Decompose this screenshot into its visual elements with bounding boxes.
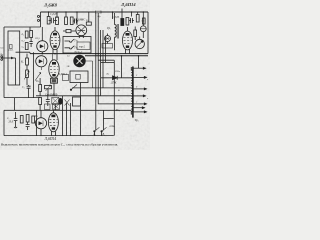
tap arrow 6 — [134, 107, 145, 109]
wire drop x122 — [121, 12, 123, 19]
lamp lead — [107, 34, 109, 44]
lamp filament — [105, 37, 109, 40]
input jack Vx — [3, 57, 16, 59]
tap arrow 4 — [134, 95, 146, 97]
svg-text:Ср=6МКФ: Ср=6МКФ — [45, 93, 58, 96]
wire bottom-left edge — [3, 110, 5, 135]
tube T4 envelope — [49, 60, 59, 78]
tube L1 cathode — [40, 44, 44, 50]
resistor R24 — [134, 30, 137, 37]
svg-text:С0,5: С0,5 — [35, 37, 41, 40]
tube T3 leads — [53, 27, 57, 60]
input jack circles — [1, 56, 3, 58]
tube L3 electrodes — [78, 27, 86, 34]
wire drop x112 — [112, 12, 114, 19]
svg-text:Гн₃: Гн₃ — [115, 109, 120, 112]
svg-text:С₂: С₂ — [22, 46, 25, 49]
tube T7 cathode — [126, 46, 129, 48]
resistor R1 — [25, 31, 28, 38]
svg-text:20,0: 20,0 — [9, 121, 14, 124]
wire drop x138 — [138, 56, 140, 68]
wire v62 — [62, 96, 64, 136]
chassis line upper — [30, 53, 148, 55]
tube L5 cathode — [39, 121, 43, 127]
svg-text:Сл: Сл — [142, 20, 145, 23]
svg-text:адап.: адап. — [8, 49, 14, 52]
resistor R18 — [26, 115, 29, 123]
tube T11 anode — [51, 115, 55, 118]
svg-text:R₂: R₂ — [21, 33, 25, 36]
meter lead — [139, 37, 141, 40]
jack box — [63, 37, 91, 54]
tube T4 socket — [51, 78, 58, 83]
wire top bus left — [41, 11, 96, 13]
tube L3 pins — [79, 35, 83, 38]
wire bundle v3 — [100, 30, 102, 96]
tube T6 slits — [77, 58, 83, 64]
tap arrow 3 — [134, 88, 147, 90]
wire drop lamp C — [142, 12, 144, 26]
tap arrow 7 — [134, 111, 147, 113]
capacitor C4 — [73, 19, 78, 24]
wire x103 L-bend — [104, 110, 114, 118]
fuse Pr1 — [96, 11, 102, 14]
wire drop x121 — [121, 56, 123, 78]
tube L2 cathode — [39, 59, 43, 65]
svg-text:Гн₁: Гн₁ — [74, 40, 79, 43]
wire inner pickup — [15, 58, 17, 85]
svg-text:С₅: С₅ — [22, 86, 25, 89]
wire y110 horizontal — [4, 109, 81, 111]
svg-text:Л₃6Н8С: Л₃6Н8С — [74, 18, 86, 22]
wire x80 vertical — [80, 83, 82, 136]
tap arrow 2 — [134, 76, 147, 78]
wire anode supply — [101, 77, 132, 79]
switch V2 — [102, 127, 107, 131]
potentiometer R13 — [45, 86, 52, 89]
wire drop R5 — [65, 12, 67, 17]
label plate — [77, 42, 90, 50]
wire nested h2 — [101, 61, 115, 63]
svg-text:3В: 3В — [67, 65, 70, 68]
potentiometer arrow R13 — [46, 85, 51, 91]
tube L5 lead — [40, 110, 42, 135]
wire nested h1 — [98, 59, 114, 61]
switch leads — [94, 110, 103, 135]
capacitor C8 — [46, 96, 50, 106]
trimmer bar — [140, 28, 146, 30]
wire drop C3 — [49, 12, 57, 21]
wire bottom edge — [4, 135, 114, 137]
lamp box — [102, 44, 113, 49]
capacitor C10 — [14, 112, 18, 128]
tube T7 leads — [126, 27, 130, 54]
resistor R3a — [25, 43, 28, 50]
svg-text:Л₅6П14: Л₅6П14 — [44, 137, 57, 141]
tube T7 anode — [126, 33, 130, 36]
tube T4 socket pins — [52, 78, 56, 83]
transformer Tr1 winding — [115, 13, 117, 50]
wire v66 — [66, 103, 68, 136]
resistor R23 — [136, 15, 139, 23]
box S2 switch — [53, 104, 60, 110]
wire left edge vertical — [3, 27, 5, 98]
tap arrow 1 — [134, 67, 146, 69]
wire mid-left horizontal — [4, 97, 40, 99]
resistor R6 — [26, 58, 29, 65]
input connector top — [38, 15, 40, 17]
resistor R4 — [56, 17, 59, 25]
svg-text:Л₄6П14: Л₄6П14 — [120, 2, 136, 7]
svg-text:Тр₂: Тр₂ — [135, 118, 139, 122]
pickup box — [8, 31, 20, 85]
tube T7 grid — [124, 38, 132, 44]
wire R24 leads — [134, 27, 136, 41]
svg-text:Кл: Кл — [106, 73, 110, 76]
wire x30 top drop — [29, 27, 31, 31]
wire drop tube L3 — [76, 12, 78, 25]
node bus junctions — [48, 11, 144, 13]
svg-text:Д7Ж: Д7Ж — [110, 82, 117, 85]
transformer Tr1 core — [117, 24, 118, 39]
wire drop x140 — [137, 12, 139, 15]
tube L2 circle — [36, 56, 47, 67]
switch V3 — [65, 100, 70, 106]
svg-text:В₁: В₁ — [94, 133, 97, 136]
tube L1 leads — [41, 27, 43, 54]
speaker symbol — [76, 74, 80, 79]
svg-text:Гн₂: Гн₂ — [74, 46, 79, 49]
wire v70 — [70, 103, 72, 136]
wire x114 vertical — [113, 60, 115, 135]
svg-text:С₉: С₉ — [7, 117, 10, 120]
wire bottom tap — [81, 109, 132, 111]
box S1 — [45, 104, 51, 110]
chassis line lower — [85, 55, 148, 57]
svg-text:В₂: В₂ — [103, 133, 106, 136]
jack Gn1 — [65, 39, 75, 42]
tube L1 circle — [37, 41, 48, 52]
tube T6 circle dark — [74, 55, 86, 67]
transformer Tr2 core — [132, 67, 134, 118]
tube T3 cathode — [53, 45, 56, 47]
tube T4 grid — [50, 67, 58, 73]
wire bus start drop — [40, 12, 42, 27]
capacitor C14 blob — [121, 19, 124, 26]
wire right edge — [147, 12, 149, 54]
jack Gn2 — [65, 46, 75, 49]
svg-text:Л₆6П14: Л₆6П14 — [57, 73, 67, 76]
resistor R21 — [126, 18, 129, 26]
tube T3 anode — [53, 33, 57, 36]
svg-text:Гн₄: Гн₄ — [35, 80, 40, 83]
wire bundle v1 — [95, 13, 97, 110]
capacitor C5 — [27, 85, 31, 98]
potentiometer arrow R7 — [24, 71, 29, 80]
meter M1 circle — [135, 39, 144, 48]
wire drop R3 — [48, 12, 50, 17]
tube T11 leads — [51, 110, 55, 135]
resistor R14 — [39, 98, 42, 105]
resistor R12 — [39, 85, 42, 92]
tube L3 circle — [76, 25, 87, 36]
speaker box — [70, 71, 88, 83]
resistor R17 — [20, 116, 23, 124]
capacitor C3 — [51, 18, 53, 23]
wire mid row — [36, 95, 132, 97]
svg-text:Л₂6Ж8: Л₂6Ж8 — [43, 3, 58, 8]
tube L5 circle — [35, 118, 46, 129]
wire R9 lead — [63, 30, 76, 32]
trimmer lead — [142, 32, 144, 38]
tube T4 anode — [52, 62, 56, 65]
switch V1 — [94, 127, 99, 131]
tube T3 envelope — [50, 31, 60, 50]
transformer Tr2 winding — [131, 67, 132, 115]
tap arrow 5 — [134, 103, 147, 105]
svg-text:сеть: сеть — [110, 125, 116, 128]
tube L2 lead pot — [35, 54, 52, 81]
box K1 — [73, 97, 81, 106]
capacitor C11 — [26, 122, 30, 130]
resistor R3 — [47, 17, 50, 25]
tube T11 cathode — [52, 127, 55, 129]
meter M1 arrow — [137, 41, 143, 47]
svg-text:0,1: 0,1 — [22, 40, 25, 43]
trimmer C15 circle — [140, 26, 146, 32]
wire x14 vertical — [14, 98, 16, 111]
resistor R22 — [143, 18, 146, 24]
wire bundle v2 — [98, 13, 131, 104]
wire drop x131 — [131, 12, 133, 17]
node chassis dots — [42, 53, 140, 57]
potentiometer R7 — [26, 70, 29, 78]
resistor R5b — [70, 17, 73, 25]
switch X mark — [54, 105, 59, 109]
resistor R2 — [30, 31, 33, 38]
lamp L circle — [105, 36, 111, 42]
resistor R19 — [32, 116, 35, 123]
resistor R8 — [86, 22, 91, 25]
resistor R9 — [66, 30, 71, 33]
capacitor C13 — [129, 18, 134, 23]
svg-text:Сл: Сл — [67, 55, 70, 58]
svg-text:С₉0,05: С₉0,05 — [112, 16, 120, 19]
svg-text:эпр-2: эпр-2 — [79, 46, 86, 49]
tube T11 envelope — [48, 113, 58, 132]
resistor R5 — [65, 17, 68, 25]
capacitor C2 — [29, 38, 32, 48]
svg-text:R₈: R₈ — [85, 19, 88, 22]
svg-text:Тр₁: Тр₁ — [107, 26, 111, 30]
wire top bus right — [101, 11, 148, 13]
svg-text:R₆: R₆ — [20, 61, 24, 64]
wire x33 vertical — [33, 52, 35, 97]
wire bundle v4 — [72, 30, 132, 88]
wire T6 to box — [71, 61, 93, 90]
resistor R15 — [52, 97, 59, 104]
svg-text:Лу №-2: Лу №-2 — [73, 51, 83, 54]
diode D1 — [113, 76, 118, 80]
wire left top horizontal — [4, 26, 41, 28]
capacitor C9 blob — [59, 98, 63, 104]
svg-text:С₃0,05: С₃0,05 — [50, 13, 58, 16]
tube T4 cathode — [52, 74, 55, 76]
tube T3 grid — [51, 37, 59, 43]
tube T7 envelope — [123, 31, 133, 50]
tube T11 grid — [49, 119, 57, 125]
